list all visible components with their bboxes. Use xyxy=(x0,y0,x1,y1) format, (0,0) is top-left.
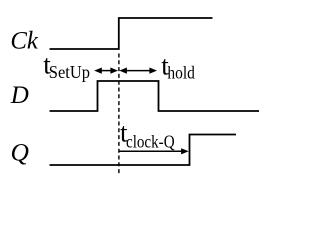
svg-text:clock-Q: clock-Q xyxy=(126,131,175,151)
svg-text:hold: hold xyxy=(167,62,195,82)
svg-text:SetUp: SetUp xyxy=(49,62,90,82)
svg-text:D: D xyxy=(10,82,29,109)
svg-text:Q: Q xyxy=(11,137,29,166)
svg-text:Ck: Ck xyxy=(10,27,39,54)
